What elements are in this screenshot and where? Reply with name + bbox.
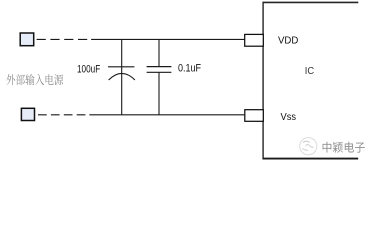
svg-text:IC: IC [305,66,314,77]
svg-text:Vss: Vss [281,112,297,123]
svg-text:100uF: 100uF [77,64,101,76]
svg-text:VDD: VDD [278,36,298,47]
svg-text:0.1uF: 0.1uF [178,62,201,74]
